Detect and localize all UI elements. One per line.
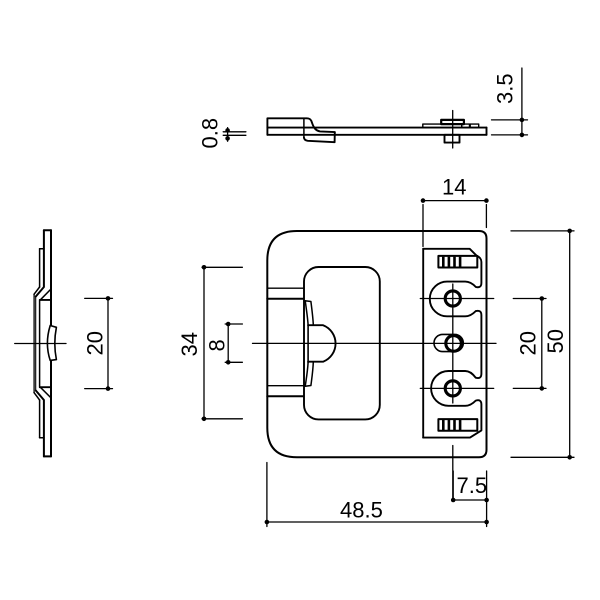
plate left edge upper xyxy=(36,230,44,296)
bar top line xyxy=(267,127,486,129)
boss base flat left xyxy=(423,124,462,128)
hatch lines bottom xyxy=(443,420,460,430)
dimension line xyxy=(267,521,487,523)
recess rounded rect xyxy=(304,267,380,419)
middle horizontal centerline xyxy=(253,342,497,344)
extension lines 3.5 xyxy=(492,120,528,135)
arrow dots xyxy=(567,229,572,234)
arrow dots 0.8 xyxy=(225,128,230,133)
bump dome xyxy=(308,325,335,362)
extension lines xyxy=(511,231,574,457)
jog diagonal bottom outer xyxy=(34,393,40,400)
svg-text:48.5: 48.5 xyxy=(340,498,383,523)
svg-text:20: 20 xyxy=(516,331,541,355)
jog tick top xyxy=(40,299,51,301)
svg-text:3.5: 3.5 xyxy=(493,73,518,104)
bottom hole centerline xyxy=(420,387,493,389)
plate left edge lower xyxy=(36,391,44,457)
left face line 2 xyxy=(35,297,37,391)
dimension line 3.5 xyxy=(521,68,523,137)
arrow dots xyxy=(106,296,111,301)
centerline left view xyxy=(15,343,66,345)
extension lines 0.8 xyxy=(223,132,246,136)
bottom cap xyxy=(44,455,51,457)
tab slot lines top xyxy=(267,287,304,289)
dimension line xyxy=(203,267,205,419)
svg-text:34: 34 xyxy=(177,332,202,356)
left block xyxy=(267,118,334,135)
arrow dots xyxy=(451,498,456,503)
arrow dots xyxy=(202,265,207,270)
jog tick bottom xyxy=(40,386,51,388)
boss raised layer xyxy=(441,120,464,124)
extension lines xyxy=(423,205,486,247)
arrow dots xyxy=(265,520,270,525)
arrow dots xyxy=(226,322,231,327)
vertical centerline xyxy=(452,284,454,501)
leader line 0.8 xyxy=(227,128,229,142)
hatch slot top xyxy=(438,256,477,268)
tab chord xyxy=(307,325,309,362)
bottom hole ring xyxy=(445,381,460,396)
extension line left xyxy=(452,471,454,500)
arrow dots xyxy=(421,198,426,203)
body outline xyxy=(267,231,486,457)
plate right edge xyxy=(50,230,52,456)
svg-text:20: 20 xyxy=(83,331,108,355)
boss serration tooth 2 xyxy=(470,124,479,128)
svg-text:8: 8 xyxy=(205,339,230,351)
arrow dots xyxy=(540,296,545,301)
strip bottom cap xyxy=(40,437,44,439)
jog diagonal top inner xyxy=(40,289,51,300)
extension lines xyxy=(202,267,242,419)
extension lines xyxy=(513,299,546,389)
extension lines xyxy=(225,324,242,362)
top cap xyxy=(44,229,51,231)
raised strip line xyxy=(39,249,41,438)
dimension line xyxy=(107,298,109,388)
dimension line xyxy=(569,231,571,457)
hatch lines top xyxy=(443,257,460,267)
boss serration tooth 1 xyxy=(462,124,470,128)
extension lines xyxy=(85,298,113,388)
svg-text:0.8: 0.8 xyxy=(198,118,223,149)
spring tab xyxy=(305,301,313,386)
dimension line xyxy=(423,200,486,202)
svg-text:50: 50 xyxy=(543,329,568,353)
top hole ring xyxy=(445,291,460,306)
dimension line xyxy=(227,324,229,362)
bar right end xyxy=(486,128,488,135)
middle hole ring xyxy=(446,336,462,352)
tab slot lines bottom xyxy=(267,385,304,387)
hook fold line xyxy=(303,118,305,137)
middle stadium slot xyxy=(434,334,463,351)
plate top edge and chamfer xyxy=(423,249,481,438)
jog diagonal top outer xyxy=(34,287,40,294)
left face line xyxy=(33,294,35,392)
bar bottom line xyxy=(267,134,486,136)
hatch slot bottom xyxy=(438,419,477,431)
dimension line xyxy=(453,499,486,501)
extension lines xyxy=(267,463,487,527)
plate left edge xyxy=(422,249,424,438)
dome crescent xyxy=(47,326,56,361)
top hole centerline xyxy=(420,298,493,300)
nut block under bar xyxy=(445,135,460,143)
hook lip xyxy=(304,132,335,142)
svg-text:14: 14 xyxy=(442,175,466,200)
jog diagonal bottom inner xyxy=(40,387,51,398)
arrow dots 3.5 xyxy=(520,118,525,123)
strip top cap xyxy=(40,248,44,250)
dimension line xyxy=(541,299,543,389)
boss vertical centerline xyxy=(452,111,454,149)
svg-text:7.5: 7.5 xyxy=(457,473,488,498)
